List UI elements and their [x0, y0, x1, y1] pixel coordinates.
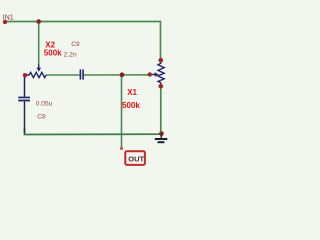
node X1 bottom terminal [159, 84, 164, 89]
node ground junction [159, 131, 164, 136]
terminal OUT box [125, 151, 145, 165]
svg-text:X1: X1 [127, 88, 137, 97]
potentiometer X2 [27, 65, 46, 78]
potentiometer X1 [151, 61, 165, 86]
svg-text:500k: 500k [44, 49, 62, 58]
wire middle horizontal C9 to X1 wiper [84, 74, 150, 76]
node IN1 terminal [3, 20, 7, 24]
svg-text:500k: 500k [122, 101, 140, 110]
svg-text:2.2n: 2.2n [64, 52, 77, 59]
node X2 left terminal [23, 73, 27, 77]
capacitor C9 [80, 69, 84, 79]
wiper arrow of X2 [37, 68, 42, 72]
wire X1 bottom to ground node [160, 86, 162, 134]
svg-text:C8: C8 [37, 114, 46, 121]
svg-text:C9: C9 [71, 41, 80, 48]
wire bottom horizontal [25, 128, 162, 135]
wiper arrow of X1 [155, 72, 159, 77]
wire OUT drop [121, 75, 123, 148]
node junction middle (OUT tap) [120, 72, 125, 77]
terminal OUT pin mark [120, 147, 123, 150]
node junction top [36, 19, 41, 24]
wire wiper drop from top junction [38, 22, 40, 67]
ground [155, 134, 168, 143]
svg-text:0.05u: 0.05u [36, 101, 53, 108]
node X1 wiper terminal [148, 72, 152, 76]
svg-text:IN1: IN1 [3, 15, 14, 22]
wire middle horizontal X2 to C9 [46, 74, 80, 76]
node X1 top terminal [159, 58, 164, 63]
svg-text:OUT: OUT [128, 154, 144, 163]
wire top horizontal IN1 to right corner [5, 22, 161, 61]
capacitor C8 [24, 77, 26, 97]
